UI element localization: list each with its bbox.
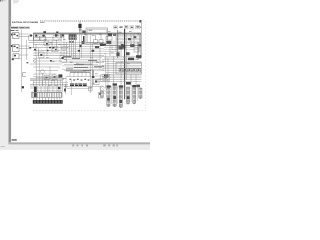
footer toolbar icons xyxy=(72,144,118,146)
dashed frame top xyxy=(40,20,142,22)
switch bank S1-S4 xyxy=(29,33,69,56)
relays K1-K5 label row xyxy=(114,25,140,29)
label: connector table legend xyxy=(33,100,63,103)
dashed frame right edge xyxy=(145,21,147,111)
connector table CN201 xyxy=(30,83,68,85)
connectors CN101-CN103 (left column) xyxy=(13,33,20,59)
resistor R1 and sensor box xyxy=(64,86,104,88)
svg-text:ELECTRICAL CIRCUIT DIAGRAM: ELECTRICAL CIRCUIT DIAGRAM xyxy=(12,21,38,24)
control unit U1 (double border) xyxy=(82,28,108,44)
fuses F1 F2 on bus xyxy=(43,31,46,33)
wires: center harness bundle xyxy=(62,56,104,71)
bottom-left faint marks xyxy=(1,146,6,147)
connectors CN301-CN306 (pin strips) xyxy=(107,88,110,106)
wires: right harness mesh xyxy=(105,41,115,45)
transformer T1 xyxy=(79,21,81,33)
diode module D1 xyxy=(94,79,100,85)
wires: mid harness mesh xyxy=(62,28,104,86)
page left edge shadow xyxy=(8,0,11,143)
gauges M1 M2 and lamp circuits xyxy=(30,47,67,87)
header gray band xyxy=(10,26,30,29)
junction box J1 xyxy=(66,76,92,88)
wires: drops into junction box xyxy=(70,73,90,77)
wires: left column to main harness xyxy=(12,30,30,93)
viewer left margin xyxy=(0,0,8,150)
label box: harness codes xyxy=(101,75,110,82)
wire: main power bus xyxy=(33,32,141,34)
wires: drops into connector table xyxy=(30,75,68,86)
wire color code labels xyxy=(35,31,140,86)
dashed line lower xyxy=(33,110,146,112)
page background xyxy=(0,0,150,150)
relay box RB1 with terminal row xyxy=(116,63,142,75)
label: junction box part number xyxy=(70,84,87,87)
wires: diagonal feeds to connectors xyxy=(99,85,109,94)
viewer bottom margin xyxy=(0,145,150,150)
bottom-left page number dash xyxy=(12,139,17,140)
top-left viewer specks xyxy=(0,0,1,2)
wires: right lower harness xyxy=(95,56,142,81)
fuse block FB1 xyxy=(69,35,77,40)
page top-left faint text xyxy=(13,1,19,2)
labels: relay box designators xyxy=(128,58,134,61)
page bottom edge shadow xyxy=(8,142,150,145)
connector CN201 pin row xyxy=(32,93,63,98)
